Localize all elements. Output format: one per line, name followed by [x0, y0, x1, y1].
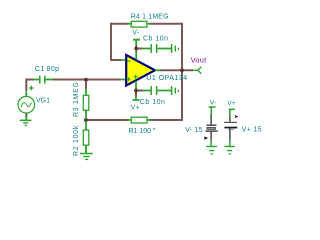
svg-text:R3 1MEG: R3 1MEG: [73, 81, 80, 117]
battery stem lower: [210, 132, 212, 141]
svg-text:U1 OPA134: U1 OPA134: [146, 75, 187, 82]
battery plates: [206, 124, 216, 126]
op-amp V+ pin: [135, 81, 137, 89]
svg-text:V+ 15: V+ 15: [242, 126, 262, 133]
battery stem lower: [229, 128, 231, 140]
wire: output vertical (R4 loop down through output to R1 loop): [181, 23, 183, 120]
battery plates: [224, 121, 237, 123]
wire: inverting input horizontal: [110, 59, 121, 61]
wire: feedback loop top horizontal left segment: [111, 23, 128, 25]
node: junction V- rail: [134, 47, 138, 51]
wire: output row horizontal: [161, 69, 194, 71]
op-amp V- pin: [135, 52, 137, 60]
op-amp minus marker: [127, 60, 130, 62]
svg-text:Cb 10n: Cb 10n: [143, 35, 169, 42]
svg-text:V+: V+: [227, 100, 236, 107]
resistor R1: [128, 117, 151, 123]
wire: Cb bottom stub: [136, 90, 143, 92]
svg-text:V- 15: V- 15: [185, 127, 203, 134]
power rail jumper above left battery: [209, 107, 216, 115]
battery stem upper: [210, 115, 212, 125]
op-amp plus marker (V+): [134, 75, 138, 79]
power rail jumper above right battery: [229, 109, 235, 116]
battery stem upper: [229, 116, 231, 122]
svg-text:V-: V-: [210, 99, 217, 106]
ground (rotated) for bottom Cb: [172, 86, 179, 95]
wire: R1 row left segment: [86, 119, 128, 121]
resistor R3: [83, 89, 89, 119]
ground (rotated) for top Cb: [172, 44, 179, 53]
wire: source bottom stub: [25, 113, 27, 117]
resistor R2: [83, 122, 89, 154]
wire: input row C1 to op-amp: [53, 79, 122, 81]
wire: feedback loop left vertical: [110, 23, 112, 60]
output terminal Vout: [193, 67, 202, 74]
ground below VG1: [20, 117, 32, 126]
svg-text:R1 100: R1 100: [129, 128, 152, 135]
node: junction R3/R2/R1: [84, 118, 88, 122]
wire: V+ pin lower stub: [135, 88, 137, 97]
op-amp plus marker (input): [127, 77, 131, 81]
svg-text:V-: V-: [132, 29, 140, 36]
wire: Cb top stub: [136, 48, 142, 50]
svg-text:VG1: VG1: [36, 97, 50, 104]
svg-text:Cb 10n: Cb 10n: [140, 99, 166, 106]
wire: R1 row right segment: [150, 119, 184, 121]
node: junction V+ rail: [134, 89, 138, 93]
wire: source top vertical: [25, 79, 27, 92]
node: junction input/R3: [84, 78, 88, 82]
op-amp output pin (green): [155, 69, 161, 71]
wire: input row from source corner to C1: [26, 79, 34, 81]
svg-text:*: *: [153, 128, 156, 135]
power rail jumper V+ (bottom): [133, 97, 140, 101]
op-amp U1 OPA134: [126, 55, 155, 86]
node: junction output/feedback: [180, 68, 184, 72]
ground below R2: [80, 154, 93, 160]
battery polarity arrow: [204, 136, 208, 139]
svg-text:C1 80p: C1 80p: [35, 66, 59, 73]
resistor R4: [128, 21, 151, 27]
wire: R3 top stub: [85, 81, 87, 89]
svg-text:V+: V+: [131, 105, 140, 112]
wire: V- pin upper stub: [135, 45, 137, 51]
ground below left battery: [206, 146, 217, 148]
voltage source VG1: [18, 86, 35, 113]
ground below right battery: [224, 146, 235, 148]
capacitor Cb (bottom): [143, 86, 172, 95]
capacitor C1: [34, 76, 53, 84]
svg-text:R2 100k: R2 100k: [73, 125, 80, 156]
op-amp input pins (green): [121, 60, 126, 80]
power rail jumper V- (top): [133, 40, 140, 46]
svg-text:Vout: Vout: [191, 55, 208, 64]
capacitor Cb (top): [143, 44, 172, 53]
svg-text:R4 1.1MEG: R4 1.1MEG: [131, 14, 169, 21]
battery polarity arrow: [235, 115, 238, 118]
battery V- 15 (left): [204, 99, 217, 154]
battery V+ 15 (right): [224, 100, 238, 154]
wire: R4 right to output vertical: [150, 23, 182, 25]
